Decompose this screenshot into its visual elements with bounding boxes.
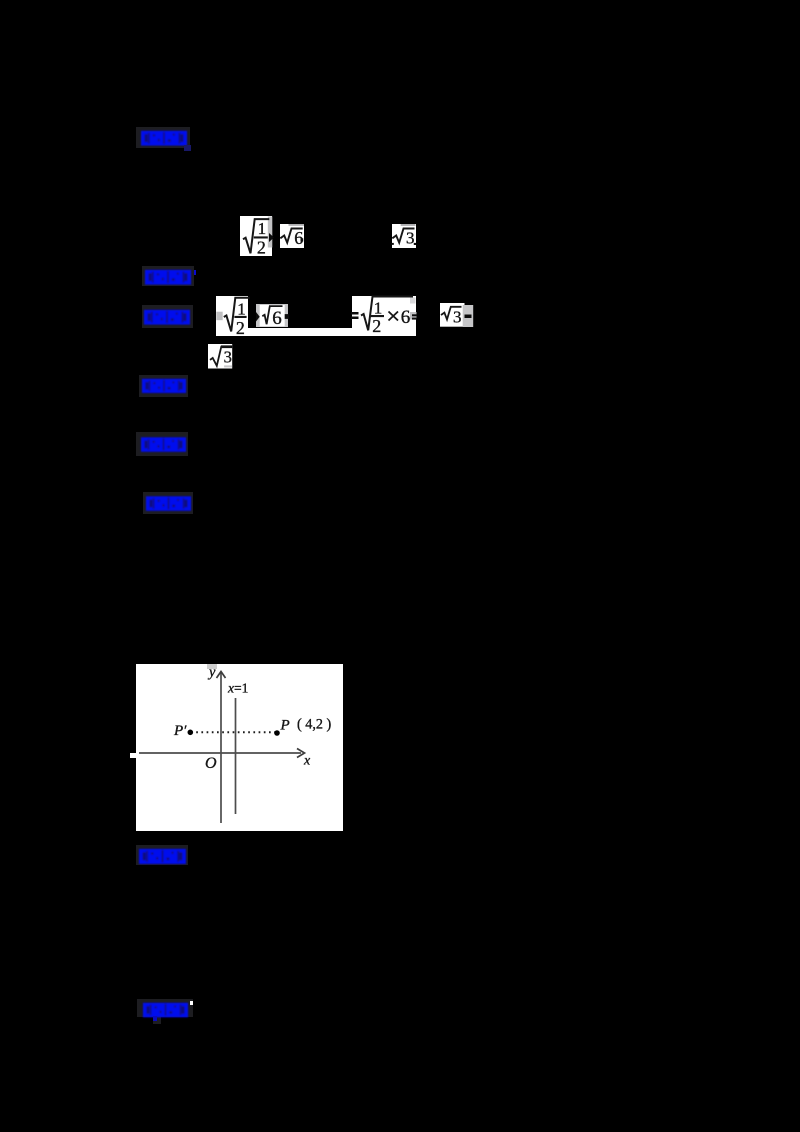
svg-text:2: 2: [256, 237, 265, 257]
white tab left of figure: [130, 753, 136, 759]
halo label 4: [139, 375, 188, 397]
svg-text:( 4,2 ): ( 4,2 ): [297, 716, 332, 732]
halo label 6: [143, 492, 193, 514]
white strip under row2: [248, 328, 352, 336]
white dash after label 8: [190, 1001, 193, 1005]
svg-text:x=1: x=1: [227, 680, 248, 695]
svg-text:1: 1: [373, 299, 382, 318]
black mark right of eq A: [269, 233, 275, 243]
shared label glyph defs: [0, 0, 1, 1]
halo label 7: [136, 845, 188, 865]
svg-text:1: 1: [237, 300, 246, 319]
eq D sqrt(1/2) row2: [216, 296, 248, 336]
label 6: [145, 495, 192, 511]
svg-text:6: 6: [400, 307, 410, 328]
x axis: [139, 752, 301, 754]
svg-text:y: y: [207, 664, 216, 680]
figure box: [136, 664, 343, 831]
label 8: [142, 1002, 189, 1017]
halo label 8: [137, 999, 193, 1017]
halo label 1: [136, 127, 190, 148]
eq C sqrt3 row1: [392, 224, 416, 248]
eq G sqrt3 row2: [440, 303, 473, 327]
svg-text:P′: P′: [173, 723, 187, 739]
halo label 5: [136, 432, 188, 456]
svg-text:2: 2: [235, 318, 244, 338]
eq F =sqrt(1/2 x6)= row2: [352, 296, 417, 336]
svg-text:3: 3: [406, 229, 415, 248]
svg-text:P: P: [280, 717, 290, 733]
dotted segment P' to P: [191, 731, 277, 733]
blue speck right of label 2: [194, 270, 196, 275]
P dot: [274, 730, 280, 736]
svg-text:6: 6: [294, 228, 303, 248]
label 1: [140, 130, 188, 145]
x arrowhead: [297, 748, 305, 757]
eq A sqrt(1/2) row1: [240, 216, 273, 256]
svg-text:3: 3: [453, 308, 462, 327]
label 7: [138, 848, 187, 864]
svg-text:3: 3: [223, 347, 231, 366]
grey notch top: [207, 664, 217, 669]
P' dot: [188, 729, 194, 735]
eq E sqrt6 selected row2: [256, 304, 288, 327]
eq B sqrt6 row1: [280, 224, 304, 248]
svg-text:x: x: [303, 753, 311, 768]
navy mark after label 1: [184, 145, 191, 151]
x=1 line: [235, 698, 237, 814]
label 4: [141, 378, 187, 393]
y arrowhead: [217, 671, 226, 678]
blue bit below label 8: [153, 1016, 157, 1021]
halo label 3: [142, 305, 193, 328]
halo label 2: [142, 266, 194, 286]
svg-text:6: 6: [272, 308, 282, 329]
y axis: [220, 672, 222, 823]
label 3: [143, 309, 191, 324]
svg-text:1: 1: [257, 219, 266, 238]
label 5: [140, 436, 187, 452]
label 2: [144, 269, 192, 284]
svg-text:O: O: [205, 755, 217, 772]
eq H sqrt3 row3: [208, 344, 232, 369]
svg-text:2: 2: [372, 316, 381, 336]
